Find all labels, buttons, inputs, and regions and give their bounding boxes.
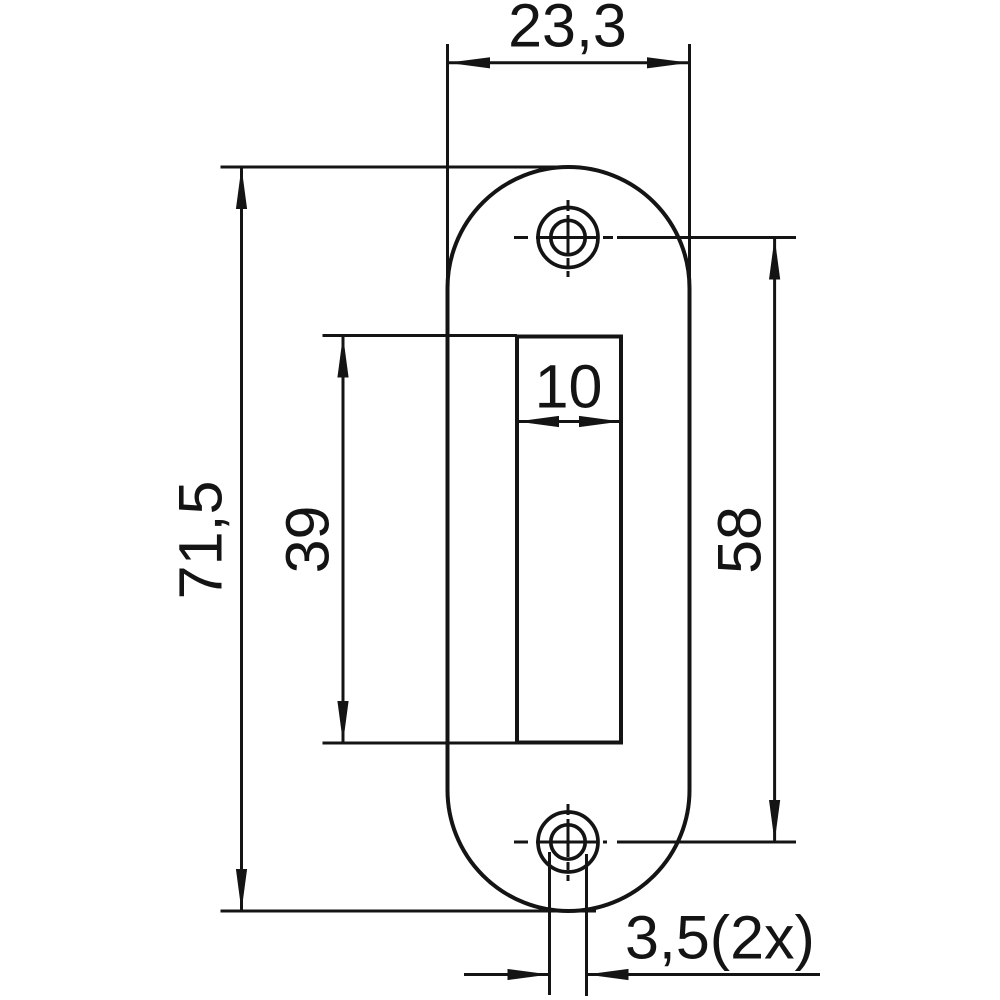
- svg-text:10: 10: [535, 353, 603, 421]
- top hole centerlines: [514, 200, 613, 277]
- dimension 39 (slot height): [274, 336, 518, 744]
- strike plate outline (stadium shape): [448, 167, 690, 911]
- svg-text:71,5: 71,5: [167, 481, 235, 600]
- dimension 3,5(2x) (screw hole diameter, bottom): [464, 852, 820, 996]
- dimension 23,3 (top width): [448, 0, 690, 288]
- dimension 58 (hole spacing, right): [617, 238, 796, 843]
- latch slot rectangle: [517, 337, 621, 743]
- svg-text:23,3: 23,3: [508, 0, 627, 60]
- top screw hole: [538, 208, 598, 268]
- bottom hole centerlines: [514, 804, 607, 881]
- svg-text:3,5(2x): 3,5(2x): [625, 904, 815, 972]
- dimension 71,5 (overall height, left): [167, 167, 597, 911]
- svg-text:58: 58: [706, 506, 774, 574]
- svg-text:39: 39: [274, 506, 342, 574]
- bottom screw hole: [538, 812, 598, 872]
- dimension 10 (slot width): [517, 353, 621, 428]
